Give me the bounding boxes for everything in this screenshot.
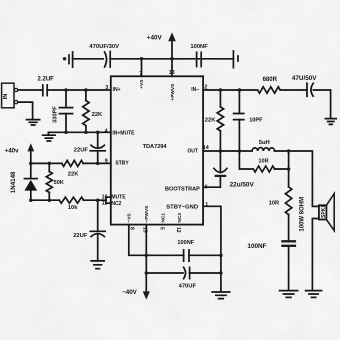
svg-text:NC2: NC2 — [111, 201, 121, 207]
svg-text:IN+: IN+ — [113, 87, 121, 93]
svg-text:10PF: 10PF — [249, 117, 263, 123]
svg-text:10: 10 — [102, 194, 108, 200]
svg-text:STBY: STBY — [115, 160, 129, 166]
svg-text:100NF: 100NF — [177, 240, 194, 246]
svg-text:470UF: 470UF — [179, 284, 197, 290]
svg-text:15: 15 — [142, 227, 148, 233]
svg-text:680R: 680R — [263, 77, 278, 83]
svg-text:−PWVS: −PWVS — [144, 205, 150, 223]
svg-text:100NF: 100NF — [247, 243, 266, 250]
svg-text:5uH: 5uH — [259, 140, 270, 146]
svg-text:9: 9 — [105, 158, 108, 164]
svg-text:5: 5 — [158, 227, 164, 230]
svg-text:22UF: 22UF — [74, 147, 89, 153]
svg-text:2.2UF: 2.2UF — [38, 76, 55, 82]
svg-text:2: 2 — [204, 84, 207, 90]
svg-text:STBY−GND: STBY−GND — [166, 204, 198, 210]
svg-text:−40V: −40V — [122, 289, 137, 296]
svg-text:22u/50V: 22u/50V — [230, 182, 255, 189]
svg-text:8: 8 — [128, 227, 134, 230]
svg-text:+40v: +40v — [5, 147, 19, 154]
svg-text:+40V: +40V — [147, 35, 163, 42]
svg-text:+PWVS: +PWVS — [170, 83, 176, 101]
svg-text:NC1: NC1 — [161, 213, 167, 223]
svg-text:22K: 22K — [68, 171, 79, 177]
svg-text:100W 8OHM: 100W 8OHM — [300, 197, 306, 232]
svg-text:SPK1: SPK1 — [321, 205, 327, 218]
svg-text:+VS: +VS — [139, 79, 145, 89]
svg-text:1N4148: 1N4148 — [10, 171, 17, 193]
svg-text:10R: 10R — [269, 201, 280, 207]
svg-text:BOOTSTRAP: BOOTSTRAP — [165, 186, 200, 192]
svg-text:10R: 10R — [258, 159, 268, 165]
svg-text:−VS: −VS — [127, 213, 133, 223]
svg-text:10k: 10k — [68, 205, 78, 211]
svg-text:22K: 22K — [92, 112, 103, 118]
svg-text:1: 1 — [205, 202, 208, 208]
svg-text:TDA7294: TDA7294 — [143, 144, 168, 150]
svg-text:4: 4 — [105, 128, 108, 134]
svg-text:47U/50V: 47U/50V — [292, 75, 317, 82]
svg-text:OUT: OUT — [187, 149, 198, 155]
svg-text:470UF/30V: 470UF/30V — [89, 44, 119, 50]
svg-text:11: 11 — [102, 201, 108, 207]
svg-text:330PF: 330PF — [53, 106, 59, 123]
svg-text:13: 13 — [169, 70, 175, 76]
svg-text:IN: IN — [3, 94, 9, 100]
svg-text:6: 6 — [205, 185, 208, 191]
svg-text:NC3: NC3 — [177, 213, 183, 223]
svg-text:IN+MUTE: IN+MUTE — [112, 131, 135, 137]
svg-text:3: 3 — [105, 85, 108, 91]
svg-text:MUTE: MUTE — [111, 195, 126, 201]
svg-text:100NF: 100NF — [190, 44, 208, 50]
svg-text:22UF: 22UF — [73, 233, 88, 239]
svg-text:12: 12 — [175, 227, 181, 233]
svg-text:IN−: IN− — [191, 87, 199, 93]
svg-text:14: 14 — [203, 145, 209, 151]
svg-text:7: 7 — [139, 71, 142, 77]
svg-text:50K: 50K — [54, 180, 64, 186]
svg-text:22K: 22K — [205, 117, 216, 123]
